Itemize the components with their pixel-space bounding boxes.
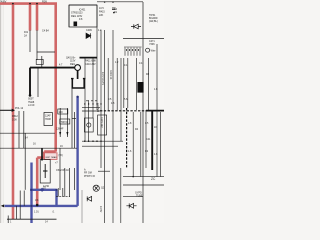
node row small dashes y100 (86, 100, 97, 102)
wire vertical x82 edge (81, 190, 83, 223)
svg-text:C415 16V: C415 16V (100, 117, 103, 128)
wire thick vertical x152 (151, 111, 153, 170)
wire vertical x60 lower (59, 148, 61, 190)
wire vertical x70 lower (69, 168, 71, 197)
svg-text:Wire: Wire (151, 49, 157, 52)
wire blue main vertical with bottom run (5, 97, 78, 206)
wire vx117 (116, 58, 118, 111)
wire horizontal y52 (37, 51, 55, 53)
svg-text:4.8V: 4.8V (1, 0, 7, 4)
wire vx88 (88, 100, 90, 141)
wire y141 (82, 140, 123, 142)
wire vx101 (100, 30, 102, 168)
diode D401 (86, 33, 90, 38)
wire arrow feed y110 (0, 109, 12, 111)
svg-text:C512 R5 1K: C512 R5 1K (56, 169, 69, 172)
wire vertical x38 seg (37, 68, 39, 97)
component arrows A1 (59, 132, 68, 136)
wire red vertical V4 with jog (37, 4, 56, 205)
svg-text:22K: 22K (99, 14, 104, 17)
component small box B59 (36, 59, 43, 64)
resistor R507 red outlined box (45, 153, 58, 160)
component box X401 (44, 113, 52, 126)
lamp L1 (146, 48, 150, 52)
wire blue horizontal upper (30, 189, 57, 191)
wire vertical x65 lower (64, 168, 66, 197)
wire vertical x42 seg (41, 56, 43, 67)
svg-text:C410 25V: C410 25V (85, 63, 96, 66)
wire bold dashed vertical x126 (126, 108, 128, 168)
svg-text:R09: R09 (42, 0, 47, 3)
wire y111 left (82, 110, 100, 112)
svg-text:R419 1K: R419 1K (109, 70, 112, 80)
svg-text:L4 C9: L4 C9 (28, 104, 35, 107)
component small boxes mid-right (84, 115, 106, 135)
svg-text:C41: C41 (146, 138, 151, 141)
label TP board (149, 14, 158, 23)
wire horizontal y219 (7, 218, 57, 220)
wire thick horiz to Q401 (30, 67, 75, 69)
wire vx157 (156, 44, 158, 177)
svg-text:C4 B4: C4 B4 (42, 30, 49, 33)
component C128 cap boxes (58, 109, 70, 124)
wire y146 (82, 145, 118, 147)
wire y176 (123, 176, 164, 178)
transistor Q401 body (75, 65, 81, 71)
wire vertical x63 stub (62, 188, 64, 197)
wire vx160 (160, 112, 162, 177)
wire vx97 (96, 5, 98, 110)
svg-text:W0P 7MA8: W0P 7MA8 (45, 156, 57, 159)
wire vertical x16 bottom (16, 206, 18, 219)
wire vertical x24 lower (23, 191, 25, 206)
wire vx121 (120, 58, 122, 141)
wire vx108 (107, 58, 109, 111)
wire horizontal x72-77 (72, 117, 76, 119)
svg-text:T08 6F: T08 6F (61, 121, 69, 124)
svg-text:10.5 VOLTS: 10.5 VOLTS (101, 72, 104, 85)
svg-text:R42 560: R42 560 (96, 103, 99, 113)
svg-text:.0.: .0. (52, 210, 55, 213)
wire red vertical V2 (29, 4, 32, 31)
wire y107 (82, 107, 100, 109)
wire bold dashed y110 (100, 110, 146, 112)
svg-text:128 4F: 128 4F (56, 128, 64, 131)
node junction dot rows (12, 1, 134, 177)
wire horizontal y133 (0, 132, 55, 134)
wire vertical x25 lower (24, 133, 26, 190)
svg-text:1.01: 1.01 (34, 210, 39, 213)
svg-text:(GR,BL): (GR,BL) (149, 20, 158, 23)
wire vx113 (112, 30, 114, 223)
wire red vertical V3 (36, 4, 39, 31)
svg-text:PHOTO R: PHOTO R (84, 175, 95, 178)
wire top-right corner drop (142, 2, 144, 223)
wire top box lead (69, 5, 97, 27)
wire top bus right (97, 1, 143, 3)
wire vx136 (135, 58, 137, 110)
node blue diamond junction (40, 188, 44, 192)
node red end cap (36, 204, 39, 207)
wire y196 right (123, 196, 143, 198)
svg-text:3.3K: 3.3K (12, 118, 17, 121)
wire vx121 lower (120, 168, 122, 223)
wire vx128 upper (127, 58, 129, 108)
svg-text:7D08: 7D08 (45, 118, 51, 121)
component box X402 (40, 160, 50, 184)
wire y185 (123, 184, 164, 186)
svg-text:(70): (70) (58, 154, 62, 157)
diode D206 bottom right (126, 203, 136, 208)
svg-text:TUBE: TUBE (136, 195, 143, 198)
node arrow into bus (1, 109, 15, 208)
wire thick y110 right (146, 110, 164, 112)
svg-text:POL 12: POL 12 (15, 107, 24, 110)
svg-text:C409: C409 (86, 29, 92, 32)
page scan edge (0, 0, 4, 223)
component U-bracket heatsink (72, 79, 84, 88)
node blue junction dots (30, 96, 78, 207)
wire vertical x74 (73, 112, 75, 148)
node blob x30 end (29, 94, 32, 97)
wire vertical x31 black (29, 30, 31, 52)
wire horizontal y38 (123, 38, 164, 40)
svg-text:Y606: Y606 (149, 43, 155, 46)
component R key x42 (41, 148, 43, 160)
component IC401 box top (69, 5, 97, 27)
wire vx124 upper (123, 58, 125, 108)
component black module M1 (137, 82, 143, 93)
svg-text:10.5V: 10.5V (99, 206, 102, 213)
wire bottom tick (7, 216, 9, 224)
wire vx141 (140, 112, 142, 177)
wire dashed gnd run (56, 196, 70, 198)
transistor Q205 (93, 185, 99, 191)
node bracket caps (71, 78, 85, 80)
wire red vertical V1 (12, 4, 15, 219)
diode D302 top right (131, 24, 141, 29)
wire thick vertical x30 (29, 68, 31, 95)
wire vertical x19 (18, 111, 20, 148)
wire vx85 (84, 58, 86, 141)
wire red B+ top bus (0, 2, 57, 5)
diode D205 (87, 196, 91, 201)
svg-text:1K: 1K (154, 126, 157, 129)
wire vertical x58 stub (57, 188, 59, 197)
wire y171 (98, 170, 110, 172)
wire vx148 (147, 58, 149, 110)
wire vertical x75 lower (74, 168, 76, 190)
wire blue vertical left (30, 163, 32, 224)
wire thick Q401 emitter drop (77, 71, 79, 80)
wire vertical x37 black (36, 30, 38, 60)
wire vx93 (92, 58, 94, 118)
wire horizontal y148 (0, 147, 77, 149)
wire vx104 (104, 30, 106, 223)
svg-text:ZC: ZC (151, 177, 156, 181)
svg-text:2A: 2A (24, 34, 27, 37)
svg-text:REG: REG (70, 63, 75, 66)
wire vertical x20 lower (19, 191, 21, 220)
wire vertical x24 (23, 111, 25, 148)
component cap marks near x114 (112, 8, 116, 13)
wire vertical x72 (71, 89, 73, 149)
wire thick y57 right (80, 57, 98, 59)
svg-text:100: 100 (59, 111, 64, 114)
wire vertical x67 (66, 108, 68, 137)
wire vertical x60 (59, 108, 61, 137)
wire vx133 (132, 112, 134, 177)
wire blue vertical mid (55, 190, 57, 206)
connector CN2 pin row (124, 47, 142, 56)
wire vx146 (145, 110, 147, 168)
